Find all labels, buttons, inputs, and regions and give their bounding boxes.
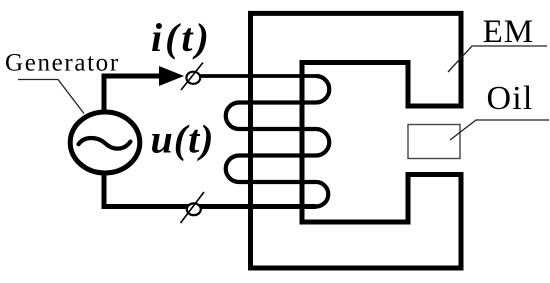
svg-text:Oil: Oil: [487, 80, 534, 117]
generator G1 (AC source circle): [70, 112, 140, 173]
leader line: EM label: [448, 46, 547, 72]
terminal (top, ammeter probe): [181, 63, 203, 91]
terminal (bottom, voltage probe): [181, 192, 205, 223]
svg-text:Generator: Generator: [5, 49, 120, 76]
wire: top lead from terminal to coil: [200, 74, 316, 78]
wire: generator top lead: [104, 76, 160, 114]
svg-text:EM: EM: [483, 14, 534, 50]
core: electromagnet C-core with air gap: [251, 13, 462, 268]
leader line: Generator label: [18, 80, 84, 114]
leader line: Oil label: [450, 120, 549, 140]
wire: bottom lead back to generator: [104, 171, 316, 207]
oil sample box in air gap: [408, 125, 460, 159]
coil L winding around left limb: [226, 76, 329, 207]
svg-text:u(t): u(t): [151, 117, 215, 162]
generator sine symbol: [79, 138, 131, 149]
arrow: current direction i(t): [159, 66, 184, 86]
svg-text:i(t): i(t): [151, 15, 212, 60]
